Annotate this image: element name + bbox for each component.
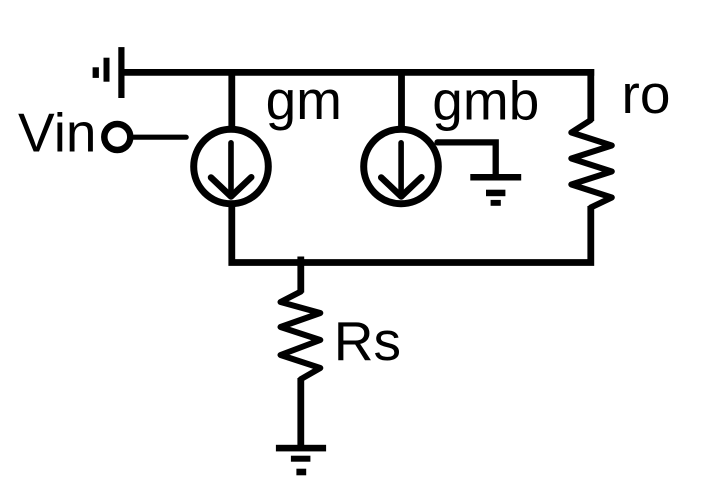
current source gm bbox=[194, 129, 269, 204]
svg-text:gmb: gmb bbox=[432, 69, 539, 131]
wire gmb top lead bbox=[398, 70, 405, 131]
wire top rail bbox=[121, 69, 594, 76]
terminal Vin bbox=[104, 124, 130, 150]
svg-text:gm: gm bbox=[266, 69, 342, 131]
ground G3 (source ground) bbox=[276, 445, 326, 476]
svg-text:Rs: Rs bbox=[334, 310, 401, 372]
wire Vin to gm bbox=[134, 135, 186, 140]
resistor Rs bbox=[281, 292, 321, 380]
wire Rs top lead bbox=[297, 257, 304, 293]
wire ro top lead bbox=[587, 69, 594, 121]
svg-text:ro: ro bbox=[622, 63, 671, 125]
ground G1 (input AC ground, rotated left) bbox=[93, 47, 125, 98]
wire bottom rail with corners bbox=[232, 202, 591, 263]
wire Rs bottom lead bbox=[297, 378, 304, 449]
wire gm top lead bbox=[228, 70, 235, 131]
current source gmb bbox=[364, 129, 439, 204]
ground G2 (bulk ground) bbox=[470, 174, 521, 206]
resistor ro bbox=[571, 120, 612, 208]
wire gmb to ground bbox=[438, 142, 496, 177]
svg-text:Vin: Vin bbox=[18, 101, 97, 163]
